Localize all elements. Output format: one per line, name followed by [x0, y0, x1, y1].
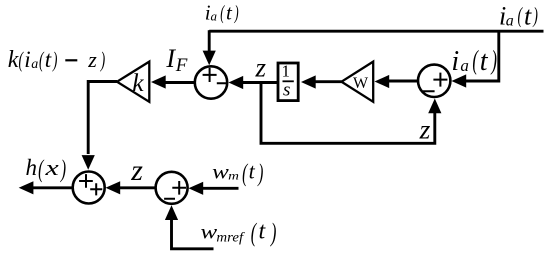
svg-text:s: s — [283, 80, 290, 101]
svg-text:t: t — [45, 47, 52, 72]
integrator block 1/s — [278, 63, 298, 101]
svg-text:k: k — [132, 68, 144, 97]
wire: summer S1 output I_F to gain k — [163, 81, 194, 84]
wire: w_m(t) input into summer S4 — [201, 187, 239, 190]
svg-text:m: m — [228, 169, 239, 182]
wire: gain k output left and down into summer S3 — [88, 82, 117, 155]
summer S1 (top left) — [195, 66, 227, 98]
svg-text:(: ( — [518, 3, 524, 28]
svg-text:(: ( — [220, 1, 225, 24]
svg-text:mref: mref — [216, 230, 245, 245]
svg-text:t: t — [249, 158, 256, 183]
svg-text:W: W — [353, 75, 369, 92]
svg-text:): ) — [100, 48, 105, 73]
svg-text:w: w — [200, 221, 217, 243]
svg-text:w: w — [212, 160, 229, 182]
summer S3 (bottom left) — [73, 172, 105, 204]
svg-text:z: z — [87, 47, 97, 72]
svg-text:I: I — [165, 44, 176, 73]
wire: summer S4 output z to summer S3 — [118, 186, 155, 189]
wire: w_mref(t) input up into summer S4 minus — [172, 220, 214, 249]
svg-text:h: h — [25, 155, 37, 180]
svg-text:): ) — [59, 154, 66, 183]
svg-text:): ) — [532, 3, 537, 28]
svg-text:(: ( — [251, 217, 258, 247]
svg-text:k: k — [8, 47, 19, 73]
wire: summer S3 output h(x) arrow — [32, 186, 73, 189]
svg-text:a: a — [460, 56, 469, 75]
gain W triangle — [342, 62, 374, 102]
svg-text:i: i — [24, 47, 30, 72]
svg-text:(: ( — [38, 154, 45, 183]
svg-text:t: t — [524, 1, 532, 30]
svg-text:t: t — [480, 46, 489, 77]
svg-text:): ) — [257, 158, 263, 187]
svg-text:z: z — [130, 154, 143, 187]
wire: top i_a(t) bus — [209, 30, 543, 33]
summer S4 (bottom middle) — [156, 172, 188, 204]
svg-text:a: a — [506, 12, 514, 29]
svg-text:(: ( — [472, 45, 479, 75]
svg-text:1: 1 — [282, 62, 291, 81]
svg-text:): ) — [490, 45, 497, 75]
svg-text:t: t — [226, 1, 233, 25]
svg-text:): ) — [269, 217, 276, 247]
svg-text:): ) — [234, 1, 239, 24]
wire: summer S2 output to gain W — [387, 80, 418, 83]
svg-text:x: x — [44, 156, 59, 180]
svg-text:i: i — [451, 46, 459, 77]
wire: z feedback down right and up into S2 minus input — [261, 83, 435, 144]
wire: gain W output to integrator 1/s — [314, 80, 342, 83]
svg-text:t: t — [258, 218, 266, 244]
svg-text:z: z — [254, 53, 266, 83]
svg-text:a: a — [211, 9, 218, 24]
svg-text:z: z — [419, 114, 431, 145]
svg-text:F: F — [175, 55, 188, 76]
svg-text:): ) — [52, 48, 57, 73]
wire: right drop from bus to summer S2 plus input — [464, 31, 499, 81]
gain k triangle — [117, 62, 149, 102]
wire: integrator output to summer S1 with node z — [241, 81, 277, 84]
wire: drop from bus into summer S1 top — [208, 30, 211, 51]
summer S2 (top right) — [418, 65, 450, 97]
svg-text:a: a — [31, 57, 38, 72]
